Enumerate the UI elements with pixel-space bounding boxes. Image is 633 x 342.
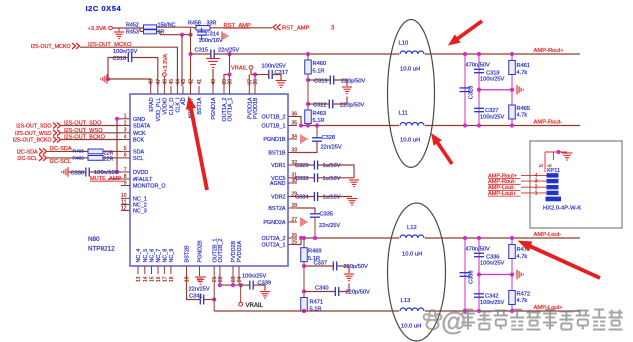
svg-text:R471: R471	[310, 300, 324, 306]
svg-text:R465: R465	[517, 106, 531, 112]
svg-text:100n/25V: 100n/25V	[262, 64, 287, 70]
svg-text:VRAIL: VRAIL	[246, 303, 264, 309]
svg-text:10.0 uH: 10.0 uH	[402, 252, 422, 258]
svg-text:DVDD: DVDD	[133, 170, 148, 176]
svg-text:100n/16V: 100n/16V	[199, 38, 224, 44]
resistor R463	[305, 110, 312, 124]
svg-text:VDDIO: VDDIO	[163, 98, 169, 115]
svg-text:C330: C330	[71, 170, 85, 176]
svg-text:AMP-Rout-: AMP-Rout-	[534, 120, 563, 126]
resistor R460	[306, 52, 310, 56]
svg-text:13: 13	[136, 276, 142, 282]
pin 19 BST2B	[186, 266, 188, 274]
svg-text:C314: C314	[206, 31, 220, 37]
svg-text:48: 48	[149, 79, 155, 85]
svg-text:35: 35	[292, 120, 298, 126]
wire OUT1B pins join	[297, 117, 301, 126]
svg-text:5.1R: 5.1R	[313, 68, 325, 74]
svg-text:22n/25V: 22n/25V	[321, 145, 342, 151]
op-amp U N80 NTP8212 chip body	[130, 94, 288, 266]
pin 20 PGND2B	[199, 266, 201, 274]
svg-text:R463: R463	[313, 111, 327, 117]
wire MCKO	[80, 47, 177, 86]
wire OUT1A pins to Rout+ rail	[224, 75, 230, 87]
pin 16 NC_7	[157, 266, 159, 274]
svg-text:470n/50V: 470n/50V	[466, 63, 491, 69]
svg-text:SCL: SCL	[133, 156, 144, 162]
svg-text:3: 3	[535, 179, 538, 185]
svg-text:C342: C342	[485, 294, 499, 300]
wire MUTE to pin8	[108, 178, 121, 180]
pin 5 SDA	[121, 150, 130, 152]
svg-text:I2S-OUT_BCKO: I2S-OUT_BCKO	[13, 138, 52, 144]
svg-text:VDR1: VDR1	[271, 163, 285, 169]
pin 14 NC_5	[144, 266, 146, 274]
ground PGND2B	[199, 274, 201, 276]
connector contact bars	[547, 173, 559, 177]
svg-text:BST1A: BST1A	[197, 97, 203, 114]
svg-text:OUT1A_1: OUT1A_1	[228, 97, 234, 121]
svg-text:C315: C315	[195, 48, 209, 54]
pin 39 OUT1A_2	[223, 86, 225, 94]
ground C339	[260, 292, 270, 299]
svg-text:22n/25V: 22n/25V	[319, 223, 340, 229]
wire +3.3VA to R452	[112, 27, 143, 29]
svg-text:OUT1B_1: OUT1B_1	[262, 124, 286, 130]
svg-text:22n/25V: 22n/25V	[189, 287, 210, 293]
pin 44 CLK_I	[176, 86, 178, 94]
svg-text:I2S-OUT_SDO: I2S-OUT_SDO	[64, 121, 102, 127]
wire VRAIL to PVDD pins	[251, 69, 255, 74]
pin 24 PVDD2A	[238, 266, 240, 274]
svg-text:L12: L12	[407, 225, 417, 231]
pin 43 AD	[182, 86, 184, 94]
svg-text:C335: C335	[320, 212, 334, 218]
pin 41 BST1A	[198, 86, 200, 94]
svg-text:5.1R: 5.1R	[313, 118, 325, 124]
ground PGND1B	[301, 135, 307, 144]
capacitor C314	[201, 28, 203, 32]
wire	[61, 132, 121, 134]
wire	[47, 157, 88, 159]
annotation arrow at #RESET	[186, 96, 209, 190]
wire BST2B to C341	[187, 274, 201, 300]
svg-text:OUT1B_2: OUT1B_2	[262, 115, 286, 121]
svg-text:NC_5: NC_5	[143, 249, 149, 263]
svg-text:OUT2B_2: OUT2B_2	[218, 239, 224, 263]
svg-text:R472: R472	[517, 292, 531, 298]
svg-text:NC_6: NC_6	[150, 249, 156, 263]
svg-text:C323: C323	[469, 86, 475, 100]
svg-text:VDR2: VDR2	[271, 195, 285, 201]
svg-text:R468: R468	[73, 155, 85, 161]
pin 26 OUT2A_2	[288, 237, 297, 239]
svg-text:3: 3	[124, 128, 127, 134]
svg-text:C338: C338	[469, 270, 475, 284]
svg-text:I2S-OUT_MCKO: I2S-OUT_MCKO	[88, 42, 132, 48]
pin 36 OUT1B_2	[288, 116, 297, 118]
svg-text:I2C-SCL: I2C-SCL	[50, 159, 71, 165]
pin 34 PGND1B	[288, 138, 297, 140]
ground C334	[347, 199, 357, 206]
pin 7 DVDD	[121, 171, 130, 173]
pin 35 OUT1B_1	[288, 125, 297, 127]
pin 36 PVDD1B	[254, 86, 256, 94]
svg-text:8: 8	[124, 174, 127, 180]
svg-text:46: 46	[162, 79, 168, 85]
svg-text:OUT2A_1: OUT2A_1	[262, 243, 286, 249]
svg-text:100n/25V: 100n/25V	[480, 77, 505, 83]
pin 11 NC_2	[121, 204, 130, 206]
svg-text:HX2.0-4P-W-K: HX2.0-4P-W-K	[543, 206, 581, 212]
annotation arrow at AMP-Lout-	[518, 241, 601, 280]
resistor R469	[302, 236, 306, 240]
svg-text:PGND1A: PGND1A	[211, 97, 217, 120]
pin 4 BCK	[121, 139, 130, 141]
pin 45 CLK_O	[170, 86, 172, 94]
ground C314	[222, 32, 228, 41]
capacitor C342	[474, 294, 484, 297]
svg-text:47: 47	[156, 79, 162, 85]
svg-text:I2S-OUT_MCKO: I2S-OUT_MCKO	[31, 44, 71, 50]
svg-text:I2S-OUT_WSO: I2S-OUT_WSO	[64, 128, 103, 134]
svg-text:10.0 uH: 10.0 uH	[400, 138, 420, 144]
svg-text:NC_8: NC_8	[163, 249, 169, 263]
svg-text:C322: C322	[313, 102, 327, 108]
pin 22 OUT2B_2	[219, 266, 221, 274]
capacitor C338	[464, 238, 466, 311]
wire EPAD down	[108, 79, 151, 86]
capacitor C335	[297, 208, 315, 214]
resistor R461	[511, 54, 513, 126]
power VRAIL bottom	[240, 285, 242, 302]
svg-text:XP11: XP11	[547, 168, 561, 174]
svg-text:NC_3: NC_3	[133, 209, 147, 215]
ground mid	[517, 270, 523, 280]
svg-text:R453: R453	[126, 29, 139, 35]
svg-text:PGND2A: PGND2A	[263, 220, 286, 226]
pin 48 EPAD	[150, 86, 152, 94]
ground EPAD	[101, 74, 107, 84]
wire	[61, 139, 121, 141]
svg-text:6: 6	[124, 153, 127, 159]
pin 29 VDR2	[288, 196, 297, 198]
svg-text:BST2A: BST2A	[268, 206, 285, 212]
svg-text:C334: C334	[295, 195, 309, 201]
pin 1 GND	[121, 118, 130, 120]
capacitor C323	[464, 54, 466, 126]
svg-text:28: 28	[292, 203, 298, 209]
ground DVDD/C330	[68, 171, 86, 173]
wire AD pin net	[181, 35, 183, 86]
svg-text:38: 38	[228, 79, 234, 85]
pin 21 OUT2B_1	[213, 266, 215, 274]
ellipse marker bottom	[388, 203, 446, 341]
ground C317	[276, 81, 287, 88]
svg-text:5: 5	[539, 164, 545, 167]
wire GND pin1 to DVDD row	[117, 119, 121, 172]
wire C316 left to EPAD/ground	[108, 58, 128, 80]
svg-text:1: 1	[124, 114, 127, 120]
svg-text:R461: R461	[517, 63, 531, 69]
svg-text:220p/50V: 220p/50V	[341, 78, 366, 84]
svg-text:WCK: WCK	[133, 131, 146, 137]
wire PVDD2 pins	[232, 274, 234, 285]
svg-text:42: 42	[189, 79, 195, 85]
svg-text:36: 36	[253, 79, 259, 85]
svg-text:9: 9	[124, 180, 127, 186]
svg-text:+3.3VA: +3.3VA	[88, 26, 107, 32]
svg-text:OUT2A_2: OUT2A_2	[262, 236, 286, 242]
svg-text:33R: 33R	[207, 21, 217, 27]
pin 30 AGND	[288, 182, 297, 184]
svg-text:4.7k: 4.7k	[517, 298, 528, 304]
watermark	[424, 306, 623, 336]
svg-text:10.0 uH: 10.0 uH	[401, 324, 421, 330]
svg-text:C333: C333	[295, 176, 309, 182]
svg-text:RST_AMP: RST_AMP	[282, 25, 310, 31]
svg-text:I2S-OUT_WSO: I2S-OUT_WSO	[15, 131, 52, 137]
pin 6 SCL	[121, 157, 130, 159]
svg-text:R460: R460	[313, 61, 327, 67]
svg-text:I2C-SDA: I2C-SDA	[17, 150, 38, 156]
svg-text:10: 10	[121, 193, 127, 199]
svg-text:100n/25V: 100n/25V	[480, 261, 505, 267]
svg-text:2: 2	[124, 120, 127, 126]
annotation arrow at L11	[431, 133, 454, 165]
svg-text:15: 15	[150, 276, 156, 282]
pin 47 VDD_PLL	[157, 86, 159, 94]
pin 3 WCK	[121, 132, 130, 134]
capacitor C336	[478, 238, 480, 311]
svg-text:34: 34	[292, 134, 298, 140]
pin 8 #FAULT	[121, 178, 130, 180]
resistor R465	[509, 105, 516, 119]
wire pin5/6 to ground	[545, 151, 567, 153]
svg-text:41: 41	[197, 79, 203, 85]
svg-text:12: 12	[121, 205, 127, 211]
pin 13 NC_4	[137, 266, 139, 274]
resistor R472	[509, 291, 516, 305]
svg-text:VRAIL: VRAIL	[231, 65, 247, 71]
svg-text:BCK: BCK	[133, 138, 144, 144]
svg-text:AD: AD	[181, 97, 187, 105]
svg-text:VDD_PLL: VDD_PLL	[156, 98, 162, 122]
svg-text:5: 5	[124, 146, 127, 152]
svg-text:GND: GND	[133, 117, 145, 123]
svg-text:36: 36	[292, 111, 298, 117]
svg-text:10.0 uH: 10.0 uH	[400, 67, 420, 73]
pin 42 #RESET	[190, 86, 192, 94]
pin 10 NC_1	[121, 197, 130, 199]
wire Lout+ rail	[214, 310, 580, 312]
ground C329/C333	[349, 180, 359, 187]
svg-text:SDA: SDA	[133, 150, 144, 156]
wire #RESET vertical	[190, 28, 192, 86]
svg-text:L10: L10	[399, 41, 409, 47]
svg-text:22: 22	[218, 276, 224, 282]
svg-text:#FAULT: #FAULT	[133, 177, 153, 183]
svg-text:45: 45	[169, 79, 175, 85]
svg-text:AGND: AGND	[270, 181, 286, 187]
wire R458 to RST_AMP	[210, 27, 272, 29]
ground PGND2A	[301, 218, 307, 227]
svg-text:C316: C316	[113, 56, 127, 62]
svg-text:C329: C329	[295, 163, 309, 169]
svg-text:1: 1	[535, 190, 538, 196]
pin 23 PVDD2B	[232, 266, 234, 274]
svg-text:AMP-Lout-: AMP-Lout-	[534, 232, 562, 238]
svg-text:I2C 0X54: I2C 0X54	[86, 4, 122, 13]
svg-text:R452: R452	[126, 22, 139, 28]
ground C319/C322	[342, 87, 352, 94]
annotation arrow top right	[448, 20, 483, 46]
svg-text:+3.3VA: +3.3VA	[163, 54, 169, 72]
resistor R470	[511, 238, 513, 311]
pin 38 OUT1A_1	[229, 86, 231, 94]
wire R452/R453 right to reset net	[157, 26, 194, 28]
svg-text:NTP8212: NTP8212	[88, 246, 115, 253]
svg-text:PVDD2A: PVDD2A	[237, 241, 243, 263]
capacitor C328	[315, 123, 319, 127]
svg-text:CLK_O: CLK_O	[169, 98, 175, 116]
pin 12 NC_3	[121, 210, 130, 212]
pin 25 OUT2A_1	[288, 244, 297, 246]
svg-text:C319: C319	[314, 78, 328, 84]
wire Rout- rail	[214, 53, 580, 55]
pin 27 PGND2A	[288, 221, 297, 223]
svg-text:1u/16V: 1u/16V	[323, 195, 341, 201]
svg-text:40: 40	[211, 79, 217, 85]
wire C316 right to VDD_PLL	[132, 58, 158, 87]
svg-text:16: 16	[156, 276, 162, 282]
svg-text:220p/50V: 220p/50V	[344, 264, 369, 270]
svg-text:470n/50V: 470n/50V	[466, 247, 491, 253]
svg-text:PGND2B: PGND2B	[198, 240, 204, 263]
resistor R471	[301, 298, 308, 312]
pin 2 SDATA	[121, 125, 130, 127]
svg-text:C340: C340	[315, 286, 329, 292]
svg-text:MONITOR_O: MONITOR_O	[133, 184, 166, 190]
svg-text:C337: C337	[314, 260, 328, 266]
svg-text:AMP-Rout+: AMP-Rout+	[534, 48, 565, 54]
svg-text:BST1B: BST1B	[268, 151, 285, 157]
pin 15 NC_6	[151, 266, 153, 274]
svg-text:R466: R466	[73, 149, 85, 155]
wire R453 left bracket	[139, 28, 141, 31]
svg-text:100n/16V: 100n/16V	[113, 49, 138, 55]
port RST_AMP	[273, 24, 281, 30]
ground mid	[517, 85, 523, 95]
svg-text:7: 7	[124, 167, 127, 173]
svg-text:19: 19	[185, 276, 191, 282]
svg-text:SDATA: SDATA	[133, 124, 151, 130]
ground connector	[562, 153, 573, 160]
pin 31 VCC5	[288, 177, 297, 179]
svg-text:1u/16V: 1u/16V	[323, 176, 341, 182]
wire mid link	[479, 89, 512, 91]
svg-text:33: 33	[292, 147, 298, 153]
svg-text:L13: L13	[401, 298, 411, 304]
svg-text:PGND1B: PGND1B	[263, 137, 286, 143]
svg-text:27: 27	[292, 217, 298, 223]
svg-text:100n/25V: 100n/25V	[480, 300, 505, 306]
svg-text:100n/25V: 100n/25V	[242, 273, 267, 279]
connector XP11 outer box	[530, 141, 622, 228]
svg-text:C327: C327	[485, 108, 499, 114]
ground PGND1A	[212, 69, 214, 86]
svg-text:I2C-SCL: I2C-SCL	[17, 156, 37, 162]
svg-text:NC_4: NC_4	[136, 249, 142, 263]
ground at +3.3VA	[118, 28, 120, 32]
pin 18 NC_9	[170, 266, 172, 274]
svg-text:I2S-OUT_BCKO: I2S-OUT_BCKO	[64, 135, 106, 141]
svg-text:C318: C318	[486, 70, 500, 76]
svg-text:1u/16V: 1u/16V	[323, 163, 341, 169]
wire OUT2B pins	[213, 274, 215, 311]
svg-text:4.7k: 4.7k	[517, 70, 528, 76]
svg-text:4.7k: 4.7k	[517, 113, 528, 119]
svg-text:R469: R469	[308, 249, 322, 255]
pin 17 NC_8	[163, 266, 165, 274]
pin 40 PGND1A	[212, 86, 214, 94]
svg-text:17: 17	[162, 276, 168, 282]
wire C315 left	[191, 53, 211, 55]
svg-text:@: @	[441, 306, 466, 336]
svg-text:PVDD1B: PVDD1B	[253, 97, 259, 119]
svg-text:C336: C336	[486, 254, 500, 260]
svg-text:NC_9: NC_9	[169, 249, 175, 263]
svg-text:EPAD: EPAD	[149, 97, 155, 111]
svg-text:N80: N80	[88, 236, 100, 243]
svg-text:I2S-OUT_SDO: I2S-OUT_SDO	[16, 124, 51, 130]
svg-text:C328: C328	[322, 135, 336, 141]
svg-text:26: 26	[292, 233, 298, 239]
svg-text:L11: L11	[399, 111, 408, 117]
svg-text:NC_1: NC_1	[133, 197, 147, 203]
ground C337/C340	[344, 274, 354, 281]
pin 28 BST2A	[288, 207, 297, 209]
svg-text:NC_7: NC_7	[156, 249, 162, 263]
wire Rout- rail main	[301, 125, 580, 127]
svg-text:25: 25	[292, 239, 298, 245]
svg-text:BST2B: BST2B	[185, 245, 191, 262]
wire	[61, 125, 121, 127]
wire	[47, 150, 88, 152]
pin 37 PVDD1A	[248, 86, 250, 94]
capacitor C318	[478, 54, 480, 126]
wire mid link	[479, 274, 512, 276]
svg-text:4.7k: 4.7k	[517, 254, 528, 260]
svg-text:14: 14	[143, 276, 149, 282]
svg-text:100n/25V: 100n/25V	[480, 115, 505, 121]
capacitor C327	[474, 108, 484, 111]
pin 32 VDR1	[288, 164, 297, 166]
svg-text:18: 18	[169, 276, 175, 282]
pin 46 VDDIO	[163, 86, 165, 94]
svg-text:6: 6	[548, 164, 554, 167]
pin 33 BST1B	[288, 152, 297, 154]
svg-text:220p/50V: 220p/50V	[340, 102, 365, 108]
ellipse marker top	[388, 20, 435, 168]
pin 9 MONITOR_O	[121, 185, 130, 187]
svg-text:5.1R: 5.1R	[310, 307, 322, 313]
svg-text:4: 4	[124, 134, 127, 140]
wire OUT2A pins join / Lout- rail	[297, 238, 301, 245]
